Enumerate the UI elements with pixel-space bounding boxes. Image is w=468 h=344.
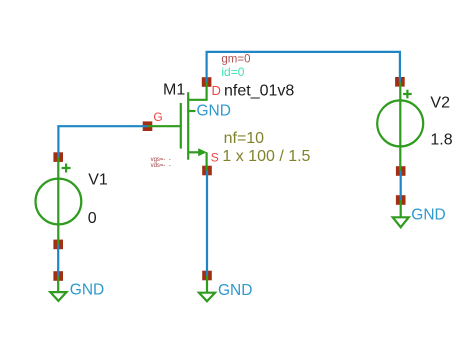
wire: V1 plus to gate: [58, 126, 147, 157]
svg-text:vds=- -: vds=- -: [151, 163, 171, 169]
V1 body line: [57, 157, 59, 244]
V2 circle: [377, 100, 423, 146]
ground symbol at source: [199, 276, 215, 302]
channel bar: [187, 92, 189, 160]
svg-text:nf=10: nf=10: [224, 130, 265, 147]
svg-text:G: G: [153, 110, 162, 124]
V1 plus sign: [62, 164, 71, 173]
svg-text:GND: GND: [197, 103, 231, 120]
pin square: V1 ground pin: [53, 271, 63, 281]
wire: V2 minus to ground pin: [400, 171, 402, 200]
drain lead: [188, 82, 206, 100]
pin square: source pin: [202, 166, 212, 176]
V2 plus sign: [403, 90, 412, 99]
svg-text:M1: M1: [163, 82, 185, 99]
voltage source V1: [36, 157, 82, 244]
pin square: V2 minus terminal: [396, 166, 406, 176]
ground symbol at V1: [50, 276, 66, 301]
svg-text:GND: GND: [411, 207, 445, 224]
source lead: [188, 151, 199, 153]
svg-text:GND: GND: [218, 282, 252, 299]
pin square: V1 plus terminal: [53, 152, 63, 162]
pin square: gate pin: [143, 121, 153, 131]
pin square: V2 plus terminal: [395, 77, 405, 87]
svg-text:D: D: [212, 83, 221, 98]
svg-text:V2: V2: [430, 94, 450, 111]
voltage source V2: [377, 82, 423, 171]
bulk lead: [188, 110, 195, 112]
gate lead: [148, 125, 181, 127]
pin square: drain net junction: [202, 77, 212, 87]
svg-text:1 x 100 / 1.5: 1 x 100 / 1.5: [222, 148, 310, 165]
pin square: middle ground pin: [202, 271, 212, 281]
source arrow: [198, 148, 207, 156]
pin square: V1 minus terminal: [53, 240, 63, 250]
V2 body line: [399, 82, 401, 171]
svg-text:GND: GND: [70, 282, 104, 299]
svg-text:1.8: 1.8: [430, 132, 452, 149]
source lead vertical: [206, 152, 208, 170]
svg-text:S: S: [211, 150, 219, 164]
V1 circle: [36, 179, 82, 225]
pin square: V2 ground pin: [396, 195, 406, 205]
svg-text:V1: V1: [88, 171, 108, 188]
ground symbol at V2: [393, 200, 409, 227]
transistor M1 nfet_01v8: [148, 82, 207, 171]
svg-text:0: 0: [88, 210, 97, 227]
wire: V1 minus to ground pin: [57, 244, 59, 276]
wire: drain to V2 top rail: [207, 52, 400, 82]
gate bar: [180, 103, 182, 149]
svg-text:gm=0: gm=0: [221, 53, 250, 65]
svg-text:id=0: id=0: [221, 65, 244, 79]
wire: source to middle ground: [206, 171, 208, 276]
svg-text:nfet_01v8: nfet_01v8: [224, 83, 294, 100]
